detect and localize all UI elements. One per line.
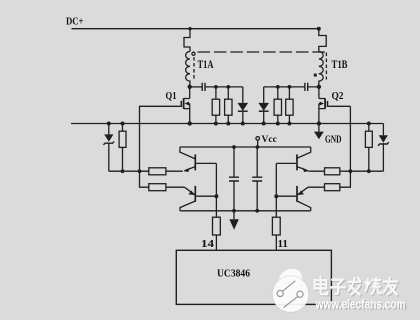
svg-text:T1A: T1A	[198, 57, 214, 71]
node junction Q2 drain	[317, 85, 321, 89]
capacitor C1	[202, 83, 205, 91]
svg-text:Q2: Q2	[332, 91, 344, 102]
resistor snubber R1	[274, 87, 281, 124]
node junction rail-bleed left	[121, 122, 125, 126]
node junction bleed left	[121, 169, 125, 173]
wire snubber right	[264, 86, 319, 88]
ground GND	[314, 124, 324, 140]
label T1B	[332, 57, 348, 71]
node junction rail-D2	[262, 122, 266, 126]
node junction rail-zener left	[107, 122, 111, 126]
transformer T1A core (dashed)	[193, 57, 195, 80]
wire Q2 gate down	[340, 106, 351, 187]
node junction rail-R R1	[276, 122, 280, 126]
resistor base lower left	[149, 184, 185, 191]
node junction bottomline-cap left	[232, 209, 236, 213]
node junction gate right	[349, 169, 353, 173]
resistor base lower right	[308, 184, 340, 191]
node junction Q1 source	[188, 121, 192, 125]
wire Q1 gate	[140, 106, 182, 187]
transformer core coupling (dashed)	[198, 51, 327, 53]
resistor snubber L2	[225, 87, 232, 124]
transistor driver right NPN	[276, 147, 310, 172]
label Vcc	[262, 135, 277, 145]
node junction bleed right	[367, 169, 371, 173]
wire C1 to snubber	[206, 86, 243, 88]
op-amp U1 UC3846 box	[176, 250, 331, 304]
node junction rail-bleed right	[367, 122, 371, 126]
wire pin14	[215, 196, 217, 250]
resistor base upper left	[149, 168, 183, 175]
diode D1	[238, 87, 249, 124]
zener ZD1 left	[103, 124, 114, 172]
svg-text:UC3846: UC3846	[217, 269, 250, 280]
wire right bases	[275, 163, 277, 196]
wire T1A to C1	[190, 86, 202, 88]
transistor driver left PNP	[180, 186, 216, 211]
resistor base upper right	[308, 168, 339, 175]
svg-text:www.elecfans.com: www.elecfans.com	[315, 298, 406, 312]
wire DC+ top rail	[72, 28, 319, 30]
watermark logo	[272, 269, 309, 313]
resistor snubber R2	[286, 87, 293, 124]
node junction R top right2	[288, 85, 292, 89]
transistor driver right PNP	[276, 186, 310, 211]
node junction T1B top	[317, 27, 321, 31]
transistor Q2 (MOSFET)	[319, 87, 351, 124]
wire main source rail	[71, 123, 383, 125]
node DC+	[66, 16, 84, 28]
svg-text:14: 14	[201, 238, 215, 250]
capacitor bypass left	[229, 147, 239, 211]
pin label 14	[201, 238, 215, 250]
label Q2	[332, 91, 344, 102]
zener ZD2 right	[378, 124, 389, 172]
node Vcc terminal	[256, 137, 260, 147]
node junction Q1 drain	[188, 85, 192, 89]
node junction rail-D1	[241, 122, 245, 126]
node junction R top right1	[276, 85, 280, 89]
svg-text:11: 11	[278, 238, 289, 250]
transformer T1A polarity dot	[192, 52, 195, 55]
transformer T1B primary link	[319, 29, 326, 52]
svg-text:Vcc: Vcc	[262, 135, 277, 145]
wire Vcc mid rail	[180, 146, 311, 148]
node junction Q2 source	[317, 121, 321, 125]
svg-text:GND: GND	[325, 135, 342, 146]
capacitor bypass right	[252, 147, 262, 211]
transformer T1B winding	[319, 52, 323, 87]
wire left bases	[215, 163, 217, 196]
node junction T1A top	[188, 27, 191, 30]
transformer T1A winding	[186, 52, 190, 87]
arrow to pin	[229, 211, 238, 230]
wire right gate line	[340, 170, 384, 172]
node junction bottomline-cap right	[255, 209, 259, 213]
svg-text:T1B: T1B	[332, 57, 348, 71]
node junction midrail-cap left	[232, 145, 236, 149]
wire pin11	[275, 196, 277, 250]
transistor Q1 (MOSFET)	[181, 87, 189, 124]
resistor pin11	[272, 217, 280, 235]
node junction left bases	[214, 194, 218, 198]
wire left gate line	[109, 170, 149, 172]
label UC3846	[217, 269, 250, 280]
node junction R top left2	[226, 85, 230, 89]
svg-text:Q1: Q1	[166, 91, 177, 102]
resistor gate bleed right	[365, 124, 372, 172]
node junction rail-R L2	[226, 122, 230, 126]
transformer T1A primary link	[184, 29, 190, 52]
label T1A	[198, 57, 214, 71]
transformer T1B polarity dot	[314, 74, 317, 77]
transformer T1B core (dashed)	[325, 53, 327, 80]
node junction gate left	[138, 169, 142, 173]
resistor snubber L1	[212, 87, 219, 124]
capacitor C2	[305, 83, 308, 91]
node junction rail-R R2	[287, 122, 291, 126]
resistor gate bleed left	[119, 124, 126, 172]
transistor driver left NPN	[180, 147, 217, 172]
node junction midrail-Vcc	[256, 145, 260, 149]
label Q1	[166, 91, 177, 102]
pin label 11	[278, 238, 289, 250]
wire driver bottom line	[180, 210, 311, 212]
node junction R top left1	[214, 85, 218, 89]
diode D2	[258, 87, 269, 124]
watermark url	[315, 298, 407, 313]
node junction right bases	[274, 194, 278, 198]
resistor pin14	[213, 217, 221, 235]
label GND	[325, 135, 342, 146]
node junction rail-R L1	[214, 122, 218, 126]
svg-text:DC+: DC+	[66, 16, 84, 28]
